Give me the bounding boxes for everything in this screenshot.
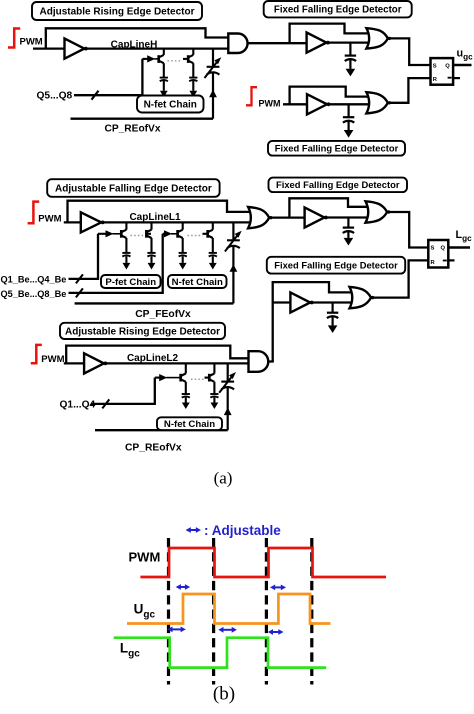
wire CapLineL2: [106, 362, 251, 364]
label box: Adjustable Rising Edge Detector (bottom): [60, 323, 225, 339]
svg-text:Q: Q: [441, 246, 446, 252]
NOR gate G3 (detector D2): [366, 92, 387, 113]
NOR gate G5 (detector D3): [366, 201, 388, 222]
inverter U6 (delay, detector D4): [290, 292, 310, 312]
svg-text:Q5_Be...Q8_Be: Q5_Be...Q8_Be: [1, 289, 67, 299]
svg-text:PWM: PWM: [129, 550, 161, 565]
NOR gate G6 (detector D4): [350, 287, 372, 308]
ellipsis P-fet chain: [131, 235, 145, 237]
adjustable delay arrow L_gc 1: [171, 628, 182, 630]
svg-text:Q1_Be...Q4_Be: Q1_Be...Q4_Be: [1, 275, 67, 285]
svg-text:Fixed Falling Edge Detector: Fixed Falling Edge Detector: [274, 5, 402, 16]
transistor Q8 (N-fet chain top, last): [192, 49, 194, 55]
PWM rising-edge symbol (red, second): [246, 87, 257, 105]
wire FF1 Q output: [453, 64, 471, 66]
svg-text:CP_FEofVx: CP_FEofVx: [135, 309, 191, 320]
capacitor under QP4 with ground arrow: [147, 252, 155, 254]
svg-text:(b): (b): [213, 684, 235, 705]
AND gate G7 (rising edge detect bottom): [249, 351, 269, 372]
svg-text:S: S: [431, 246, 435, 252]
svg-text:Adjustable Falling Edge Detect: Adjustable Falling Edge Detector: [55, 184, 212, 195]
gate arrow into N-fet chain (bottom): [155, 377, 160, 379]
bus slash Q1_Be: [76, 274, 83, 283]
capacitor under QN4 with ground arrow: [209, 252, 217, 254]
wire D1 feed-forward rail: [290, 24, 369, 44]
OR gate G4 (falling edge detect): [248, 207, 269, 228]
transistor QN4 (N-fet chain middle last): [212, 222, 214, 229]
label box: N-fet Chain (bottom): [157, 417, 222, 430]
svg-text:CP_REofVx: CP_REofVx: [104, 123, 160, 134]
svg-text:Q5...Q8: Q5...Q8: [37, 91, 73, 102]
label box: Adjustable Rising Edge Detector (top): [32, 2, 202, 20]
inverter U2 (delay, detector D1): [307, 33, 327, 53]
wire feed-forward rail (top): [46, 28, 229, 48]
capacitor under QB1 with ground arrow: [182, 393, 190, 395]
gate stub QN4: [203, 233, 208, 235]
timing dashed gridline 2: [212, 538, 215, 685]
wire U5 to NOR G5: [326, 216, 368, 218]
svg-text:Fixed Falling Edge Detector: Fixed Falling Edge Detector: [275, 143, 399, 154]
bus slash Q5..Q8: [92, 91, 99, 100]
wire G1 output to detector D1: [247, 42, 306, 44]
svg-text:Adjustable Rising Edge Detecto: Adjustable Rising Edge Detector: [65, 327, 220, 338]
wire D4 tee to inverter U6: [273, 301, 291, 303]
capacitor C3 to ground (D3): [347, 218, 349, 228]
wire G2 to latch FF1 S input: [391, 38, 431, 65]
capacitor C2 to ground (D2): [348, 104, 350, 117]
wire CP_REofVx (bottom): [95, 429, 228, 431]
wire G7 output: [267, 360, 274, 362]
wire bottom feed-forward rail: [66, 346, 251, 364]
wire FF2 Qbar stub: [448, 259, 454, 261]
wire U6 to NOR G6: [312, 301, 352, 303]
label box: Fixed Falling Edge Detector (3): [269, 178, 408, 193]
ellipsis between chain transistors (top): [168, 60, 183, 62]
svg-text:PWM: PWM: [259, 98, 281, 108]
svg-text:(a): (a): [214, 469, 233, 488]
svg-text:N-fet Chain: N-fet Chain: [164, 419, 215, 430]
wire CapLineH: [86, 47, 228, 49]
adjustable delay arrow U_gc 1: [179, 586, 186, 588]
legend adjustable arrow (blue): [189, 529, 197, 531]
inverter U5 (delay, detector D3): [305, 207, 325, 227]
capacitor C1 to ground (D1): [349, 43, 351, 56]
svg-text:P-fet Chain: P-fet Chain: [105, 277, 156, 288]
transistor QP4 (P-fet chain last): [150, 222, 152, 229]
svg-text:Fixed Falling Edge Detector: Fixed Falling Edge Detector: [276, 179, 400, 190]
label box: N-fet Chain (top): [137, 96, 204, 113]
wire G6 to latch FF2 R input: [374, 260, 428, 297]
label box: P-fet Chain: [101, 275, 161, 288]
svg-text:N-fet Chain: N-fet Chain: [144, 100, 197, 111]
PWM rising-edge symbol (red, bottom): [31, 345, 42, 363]
wire U3 to NOR G3: [329, 103, 369, 105]
timing dashed gridline 1: [167, 538, 170, 685]
capacitor under Q5 with ground arrow: [160, 77, 168, 79]
capacitor under QN1 with ground arrow: [179, 252, 187, 254]
wire PWM to inverter U3: [283, 103, 307, 105]
PWM rising-edge symbol (red, middle): [28, 202, 40, 224]
svg-text:Q: Q: [445, 64, 450, 70]
capacitor C4 to ground (D4): [332, 303, 334, 313]
buffer U7 (CapLineL2 driver): [84, 353, 104, 373]
PWM waveform (red): [140, 548, 386, 577]
wire G3 to latch FF1 R input: [391, 78, 431, 103]
transistor Q5 (N-fet chain top, first): [163, 49, 165, 55]
NOR gate G2 (detector D1): [366, 28, 387, 48]
gate arrow into P-fet chain: [98, 233, 107, 235]
svg-text:N-fet Chain: N-fet Chain: [172, 277, 223, 288]
wire Q1..Q4 bus to gate rail: [91, 378, 155, 404]
varactor (adjustable cap) CapLineL2: [227, 363, 229, 381]
inverter U3 (delay, detector D2): [307, 94, 327, 114]
svg-text:PWM: PWM: [20, 37, 43, 48]
ellipsis N-fet chain (bottom): [191, 378, 205, 380]
label box: Fixed Falling Edge Detector (4): [267, 257, 405, 274]
adjustable delay arrow L_gc 2: [222, 629, 233, 631]
wire PWM to inverter U1: [33, 47, 65, 49]
label box: N-fet Chain (middle): [168, 275, 227, 288]
transistor QN1 (N-fet chain middle first): [182, 222, 184, 229]
varactor (adjustable cap) CapLineL1: [232, 222, 234, 239]
L_gc waveform (green): [114, 638, 327, 668]
wire AND G7 output up to detector D4: [273, 282, 352, 361]
wire CP_FEofVx: [75, 302, 234, 304]
wire middle feed-forward rail: [68, 201, 251, 223]
wire U2 to NOR G2: [328, 41, 369, 43]
SR latch FF1: [431, 58, 454, 85]
adjustable delay arrow U_gc 2: [274, 586, 283, 588]
AND gate G1 (rising edge detect): [228, 34, 247, 54]
wire FF2 Q output: [448, 246, 470, 248]
capacitor under Q8 with ground arrow: [189, 77, 197, 79]
wire Q1_Be bus to P-fet gates: [69, 234, 99, 279]
svg-text:: Adjustable: : Adjustable: [204, 523, 281, 538]
wire FF1 Qbar stub: [453, 77, 460, 79]
wire G4 output to detector D3: [272, 216, 305, 218]
transistor QB1 (N-fet chain bottom first): [185, 363, 187, 373]
svg-text:Adjustable Rising Edge Detecto: Adjustable Rising Edge Detector: [39, 7, 194, 18]
wire D2 feed-forward rail: [290, 87, 369, 105]
varactor (adjustable cap) CapLineH: [212, 49, 214, 67]
ellipsis N-fet chain (middle): [188, 235, 203, 237]
label box: Fixed Falling Edge Detector (2): [268, 141, 405, 156]
label box: Fixed Falling Edge Detector (1): [264, 1, 412, 17]
gate stub QP4: [146, 233, 152, 235]
buffer U1 (CapLineH driver): [65, 39, 85, 59]
wire PWM to inverter U4: [64, 221, 81, 223]
inverter U4 (CapLineL1 driver): [81, 212, 101, 232]
timing dashed gridline 4: [310, 538, 313, 685]
wire PWM to inverter U7: [64, 362, 84, 364]
capacitor under QP1 with ground arrow: [122, 252, 130, 254]
svg-text:PWM: PWM: [38, 214, 61, 225]
wire D3 feed-forward rail: [289, 198, 367, 217]
label box: Adjustable Falling Edge Detector: [47, 179, 219, 197]
capacitor under QB4 with ground arrow: [210, 393, 218, 395]
wire G5 to latch FF2 S input: [390, 212, 428, 248]
wire Q5_Be bus to N-fet gates: [69, 234, 163, 293]
PWM rising-edge symbol (red, top-left): [8, 29, 20, 48]
gate stub transistor Q8: [183, 58, 189, 60]
wire CapLineL1: [103, 221, 251, 223]
bus slash Q1..Q4: [102, 399, 109, 408]
gate arrow into N-fet chain (top): [142, 58, 148, 60]
bus slash Q5_Be: [76, 288, 83, 297]
SR latch FF2: [428, 240, 448, 268]
gate stub QB4: [205, 377, 210, 379]
svg-text:PWM: PWM: [41, 354, 64, 365]
gate arrow into N-fet chain (middle): [163, 233, 165, 235]
adjustable delay arrow L_gc 3: [272, 631, 280, 633]
wire Q5..Q8 bus to gate rail: [74, 59, 142, 95]
transistor QB4 (N-fet chain bottom last): [213, 363, 215, 373]
svg-text:Fixed Falling Edge Detector: Fixed Falling Edge Detector: [274, 260, 398, 271]
svg-text:CP_REofVx: CP_REofVx: [125, 442, 182, 453]
transistor QP1 (P-fet chain first): [125, 222, 127, 229]
timing dashed gridline 3: [265, 538, 268, 685]
svg-text:Q1...Q4: Q1...Q4: [60, 400, 96, 411]
svg-text:S: S: [433, 64, 437, 70]
U_gc waveform (orange): [127, 594, 331, 624]
wire CP_REofVx (top): [71, 117, 214, 119]
